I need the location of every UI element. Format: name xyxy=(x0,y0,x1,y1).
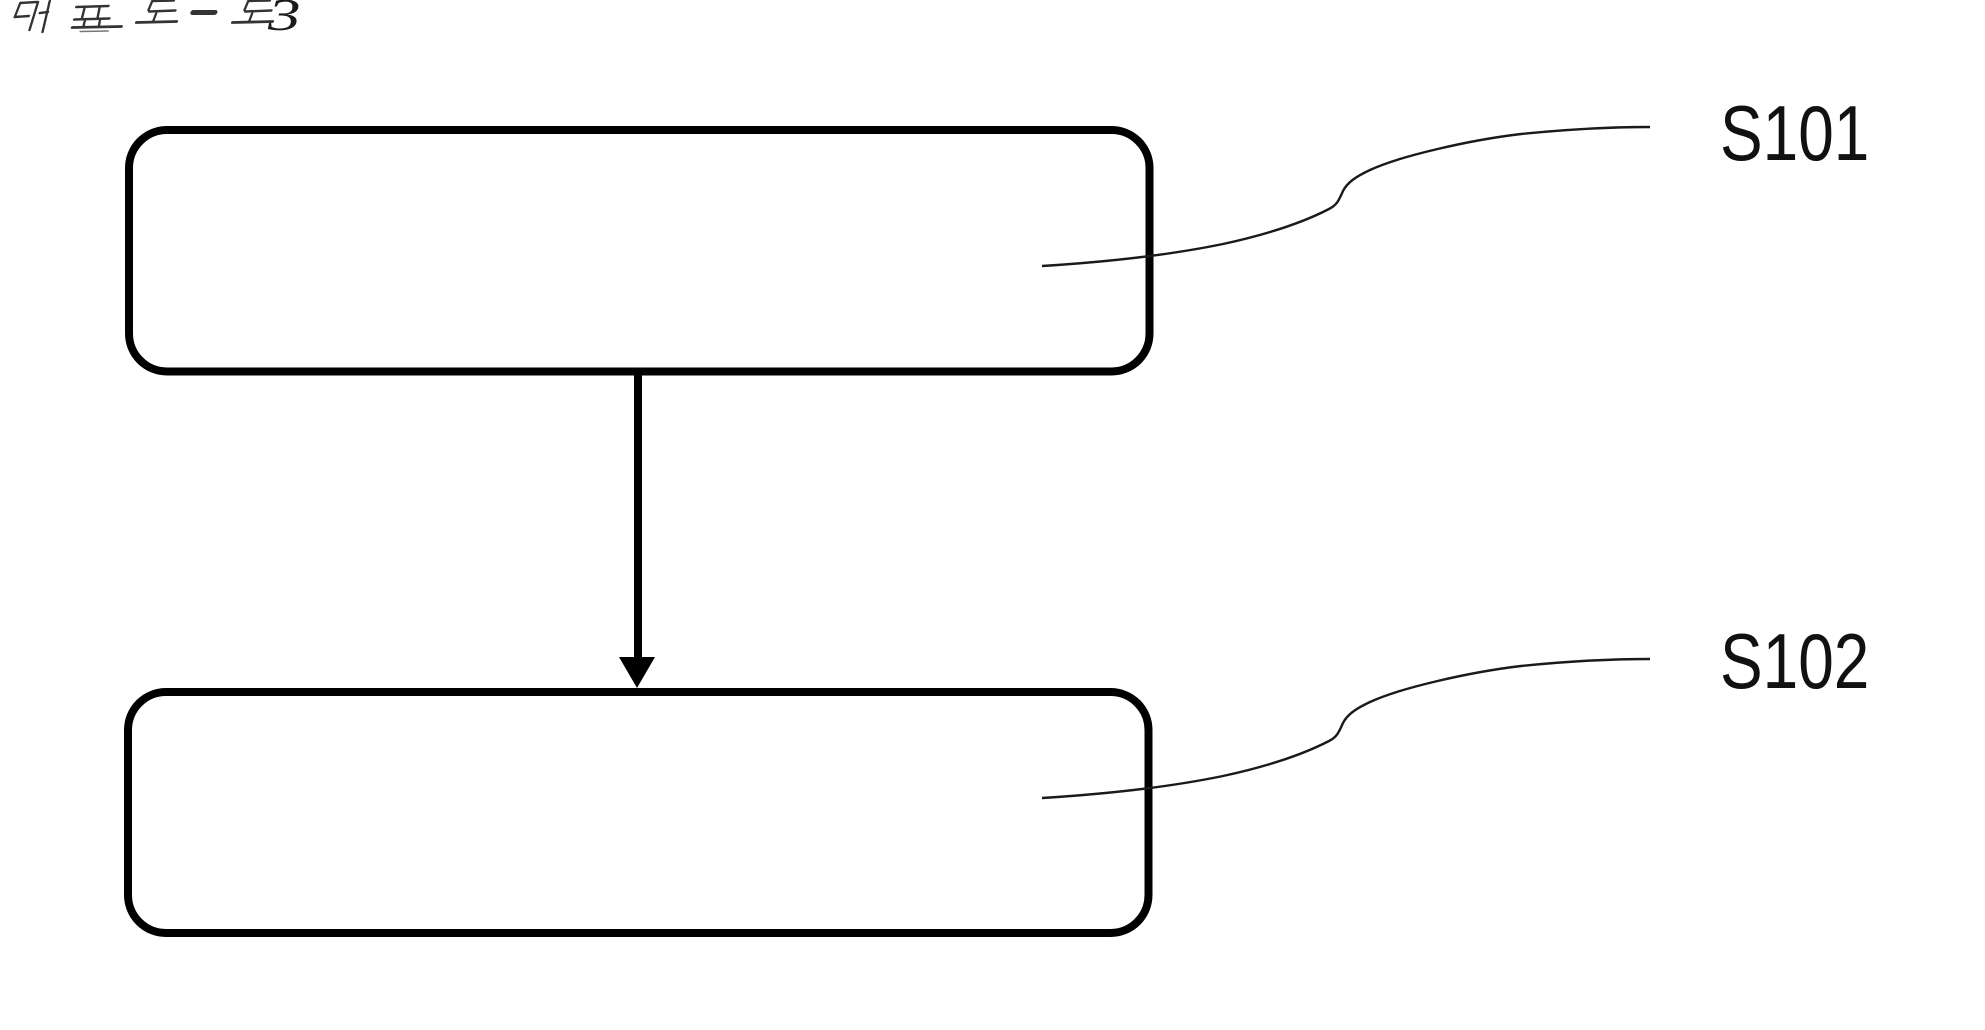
svg-text:S101: S101 xyxy=(1720,90,1869,177)
box S101 (top rounded rectangle) xyxy=(129,130,1150,372)
hyphen xyxy=(193,10,215,15)
hangul 도 (second) xyxy=(232,1,277,23)
title text "대 표 도 - 도3" (hand-drawn italic hangul strokes) xyxy=(11,1,278,33)
hangul 도 (first) xyxy=(136,1,181,23)
svg-text:3: 3 xyxy=(267,0,301,41)
hangul 대 xyxy=(11,1,51,32)
arrow from box S101 to box S102 xyxy=(634,375,642,660)
leader line to S102 xyxy=(1042,659,1650,798)
hangul 표 xyxy=(70,6,126,32)
leader line to S101 xyxy=(1042,127,1650,266)
svg-text:S102: S102 xyxy=(1720,618,1869,705)
box S102 (bottom rounded rectangle) xyxy=(128,692,1149,933)
